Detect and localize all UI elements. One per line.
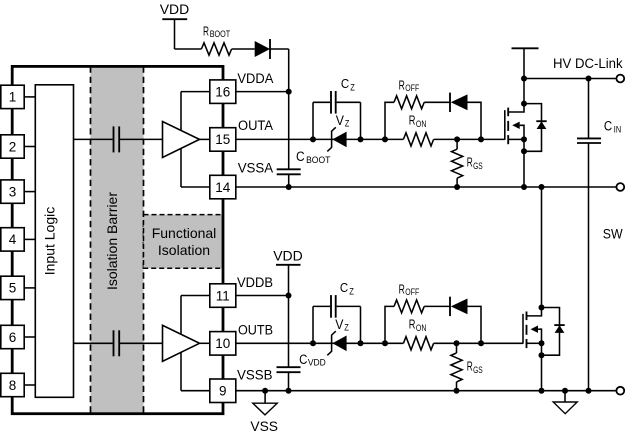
svg-text:C: C	[296, 149, 305, 164]
svg-text:Isolation: Isolation	[158, 242, 210, 258]
svg-text:Z: Z	[345, 119, 350, 130]
svg-text:C: C	[604, 119, 613, 134]
svg-text:C: C	[340, 280, 348, 295]
svg-text:OFF: OFF	[405, 287, 419, 297]
svg-text:R: R	[409, 114, 416, 128]
svg-text:V: V	[335, 317, 343, 332]
svg-text:R: R	[203, 24, 209, 38]
svg-text:R: R	[399, 282, 405, 296]
svg-text:VDD: VDD	[308, 358, 326, 368]
svg-text:14: 14	[215, 180, 231, 195]
svg-text:Z: Z	[350, 82, 355, 93]
svg-text:Input Logic: Input Logic	[41, 207, 57, 276]
svg-text:R: R	[399, 78, 405, 92]
svg-text:IN: IN	[614, 124, 621, 134]
svg-text:8: 8	[9, 378, 17, 393]
svg-text:ON: ON	[416, 119, 427, 129]
svg-text:VSSB: VSSB	[237, 368, 273, 383]
svg-text:VSS: VSS	[250, 419, 278, 434]
svg-text:VDD: VDD	[160, 1, 190, 17]
svg-text:3: 3	[9, 184, 17, 199]
svg-text:BOOT: BOOT	[306, 155, 331, 165]
svg-text:V: V	[336, 113, 344, 128]
svg-text:VSSA: VSSA	[238, 160, 274, 175]
svg-text:HV DC-Link: HV DC-Link	[553, 56, 623, 71]
svg-text:ON: ON	[416, 323, 427, 333]
svg-text:11: 11	[216, 288, 230, 303]
svg-text:2: 2	[9, 139, 17, 154]
svg-text:GS: GS	[473, 365, 483, 375]
svg-text:Isolation Barrier: Isolation Barrier	[104, 192, 120, 290]
svg-text:VDDA: VDDA	[237, 71, 273, 86]
svg-text:R: R	[409, 318, 416, 332]
svg-text:R: R	[467, 360, 473, 374]
svg-text:VDD: VDD	[273, 248, 303, 264]
svg-text:16: 16	[215, 84, 230, 99]
svg-text:Functional: Functional	[152, 225, 217, 241]
svg-text:6: 6	[9, 330, 17, 345]
svg-text:10: 10	[215, 336, 230, 351]
svg-text:15: 15	[215, 132, 230, 147]
svg-text:9: 9	[219, 384, 227, 399]
svg-text:OUTA: OUTA	[238, 118, 273, 133]
svg-text:SW: SW	[603, 227, 623, 242]
svg-text:C: C	[341, 76, 349, 91]
svg-text:4: 4	[9, 232, 17, 247]
svg-text:5: 5	[9, 281, 17, 296]
svg-text:Z: Z	[344, 323, 349, 334]
svg-text:VDDB: VDDB	[237, 275, 273, 290]
svg-text:C: C	[299, 352, 308, 367]
svg-text:1: 1	[9, 90, 17, 105]
svg-text:Z: Z	[349, 286, 354, 297]
svg-text:OFF: OFF	[405, 83, 419, 93]
svg-text:BOOT: BOOT	[210, 29, 231, 39]
svg-text:R: R	[467, 156, 473, 170]
svg-text:OUTB: OUTB	[238, 323, 273, 338]
svg-text:GS: GS	[473, 161, 483, 171]
